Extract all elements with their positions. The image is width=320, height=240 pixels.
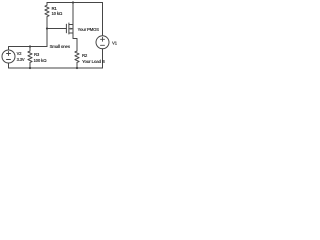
junction dot top rail / PMOS	[72, 1, 74, 3]
junction dot R3 top	[29, 45, 31, 47]
svg-text:Small ones: Small ones	[50, 44, 71, 49]
wire gate feed	[47, 28, 66, 30]
wire V1 top lead	[102, 3, 104, 36]
svg-text:V2: V2	[17, 51, 23, 56]
wire R2 bottom lead	[76, 62, 78, 68]
wire PMOS drain jog	[73, 33, 77, 51]
transistor PMOS source leg	[69, 32, 73, 34]
junction dot gate tap	[46, 27, 48, 29]
resistor R3	[28, 47, 32, 69]
svg-text:100 kΩ: 100 kΩ	[34, 58, 48, 63]
transistor PMOS body arrow	[71, 28, 73, 30]
V1 plus sign	[101, 38, 105, 40]
wire V1 bottom lead	[102, 49, 104, 68]
svg-text:3.3V: 3.3V	[17, 57, 25, 62]
wire R1 bottom to gate node	[46, 18, 48, 47]
wire gate node horizontal	[9, 47, 48, 51]
V1 minus sign	[101, 44, 105, 46]
svg-text:R3: R3	[34, 52, 40, 57]
svg-text:R2: R2	[82, 53, 88, 58]
V2 plus sign	[7, 53, 11, 55]
transistor PMOS body leg	[69, 28, 73, 30]
svg-text:Your PMOS: Your PMOS	[78, 27, 100, 32]
wire V2 bottom lead	[8, 63, 10, 68]
resistor R2	[75, 51, 79, 62]
junction dot R2 bottom rail	[76, 67, 78, 69]
transistor PMOS gate bar	[65, 24, 67, 33]
voltage source V1	[96, 36, 109, 49]
wire PMOS source to top rail	[72, 3, 74, 25]
resistor R1	[45, 3, 49, 18]
svg-text:10 kΩ: 10 kΩ	[52, 11, 63, 16]
transistor PMOS channel bar	[68, 23, 70, 34]
wire top rail	[47, 2, 103, 4]
voltage source V2	[2, 50, 15, 63]
V2 minus sign	[7, 59, 11, 61]
svg-text:V1: V1	[112, 41, 118, 46]
transistor PMOS drain leg	[69, 24, 73, 26]
wire bottom rail	[9, 67, 103, 69]
svg-text:Your Load B: Your Load B	[82, 59, 105, 64]
transistor PMOS right bar	[72, 25, 74, 34]
junction dot R3 bottom rail	[29, 67, 31, 69]
